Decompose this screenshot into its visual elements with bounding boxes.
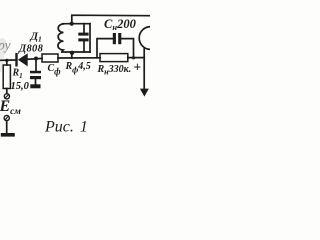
svg-text:Д808: Д808 — [18, 44, 44, 55]
svg-text:Rн330к.: Rн330к. — [97, 64, 132, 77]
svg-text:Рис.1: Рис.1 — [44, 119, 88, 136]
svg-text:ру: ру — [0, 38, 11, 53]
svg-text:+: + — [134, 59, 142, 74]
svg-text:Сн200: Сн200 — [104, 17, 137, 32]
svg-text:15,0: 15,0 — [11, 81, 30, 92]
